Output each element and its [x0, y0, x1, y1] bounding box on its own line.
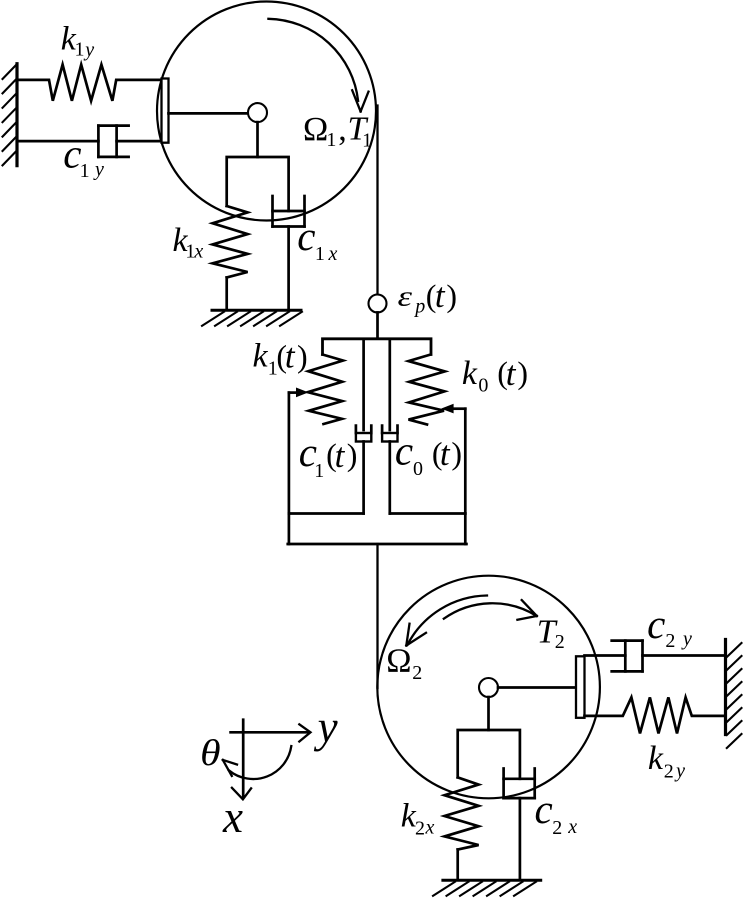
svg-text:y: y — [681, 628, 692, 650]
svg-text:p: p — [413, 296, 425, 318]
svg-text:0: 0 — [413, 458, 423, 480]
svg-text:k: k — [462, 355, 478, 392]
svg-text:y: y — [83, 39, 94, 61]
svg-text:): ) — [451, 435, 462, 471]
svg-text:x: x — [222, 792, 243, 842]
svg-text:1: 1 — [314, 460, 324, 482]
svg-text:): ) — [446, 278, 457, 314]
svg-text:2: 2 — [555, 631, 565, 653]
svg-text:0: 0 — [478, 375, 488, 397]
svg-text:c: c — [647, 601, 665, 647]
svg-text:k: k — [253, 337, 269, 374]
svg-text:Ω: Ω — [386, 643, 411, 680]
svg-text:x: x — [328, 243, 338, 265]
svg-text:,: , — [338, 111, 347, 148]
svg-text:t: t — [506, 354, 517, 393]
svg-text:1: 1 — [315, 243, 325, 265]
svg-text:Ω: Ω — [303, 111, 328, 148]
svg-text:ε: ε — [398, 281, 413, 312]
svg-text:k: k — [648, 740, 664, 777]
svg-text:1: 1 — [326, 129, 336, 151]
svg-text:1: 1 — [80, 160, 90, 182]
svg-text:x: x — [567, 816, 577, 838]
svg-text:1: 1 — [362, 129, 372, 151]
svg-text:θ: θ — [200, 733, 221, 774]
svg-text:t: t — [435, 276, 446, 315]
svg-text:): ) — [517, 355, 528, 391]
svg-text:y: y — [93, 159, 104, 181]
svg-text:): ) — [297, 338, 308, 374]
svg-text:t: t — [285, 337, 296, 376]
svg-text:2: 2 — [664, 761, 674, 783]
svg-text:c: c — [297, 213, 315, 259]
svg-text:y: y — [674, 760, 685, 782]
svg-text:2: 2 — [665, 630, 675, 652]
svg-text:): ) — [347, 437, 358, 473]
svg-text:t: t — [440, 434, 451, 473]
svg-text:2: 2 — [552, 817, 562, 839]
svg-text:x: x — [425, 817, 435, 839]
svg-text:c: c — [395, 428, 413, 474]
svg-text:1: 1 — [75, 39, 85, 61]
svg-text:2: 2 — [415, 817, 425, 839]
svg-text:2: 2 — [412, 662, 422, 684]
svg-text:t: t — [335, 436, 346, 475]
svg-text:c: c — [535, 786, 553, 832]
svg-text:x: x — [193, 241, 203, 263]
svg-text:y: y — [314, 702, 338, 752]
